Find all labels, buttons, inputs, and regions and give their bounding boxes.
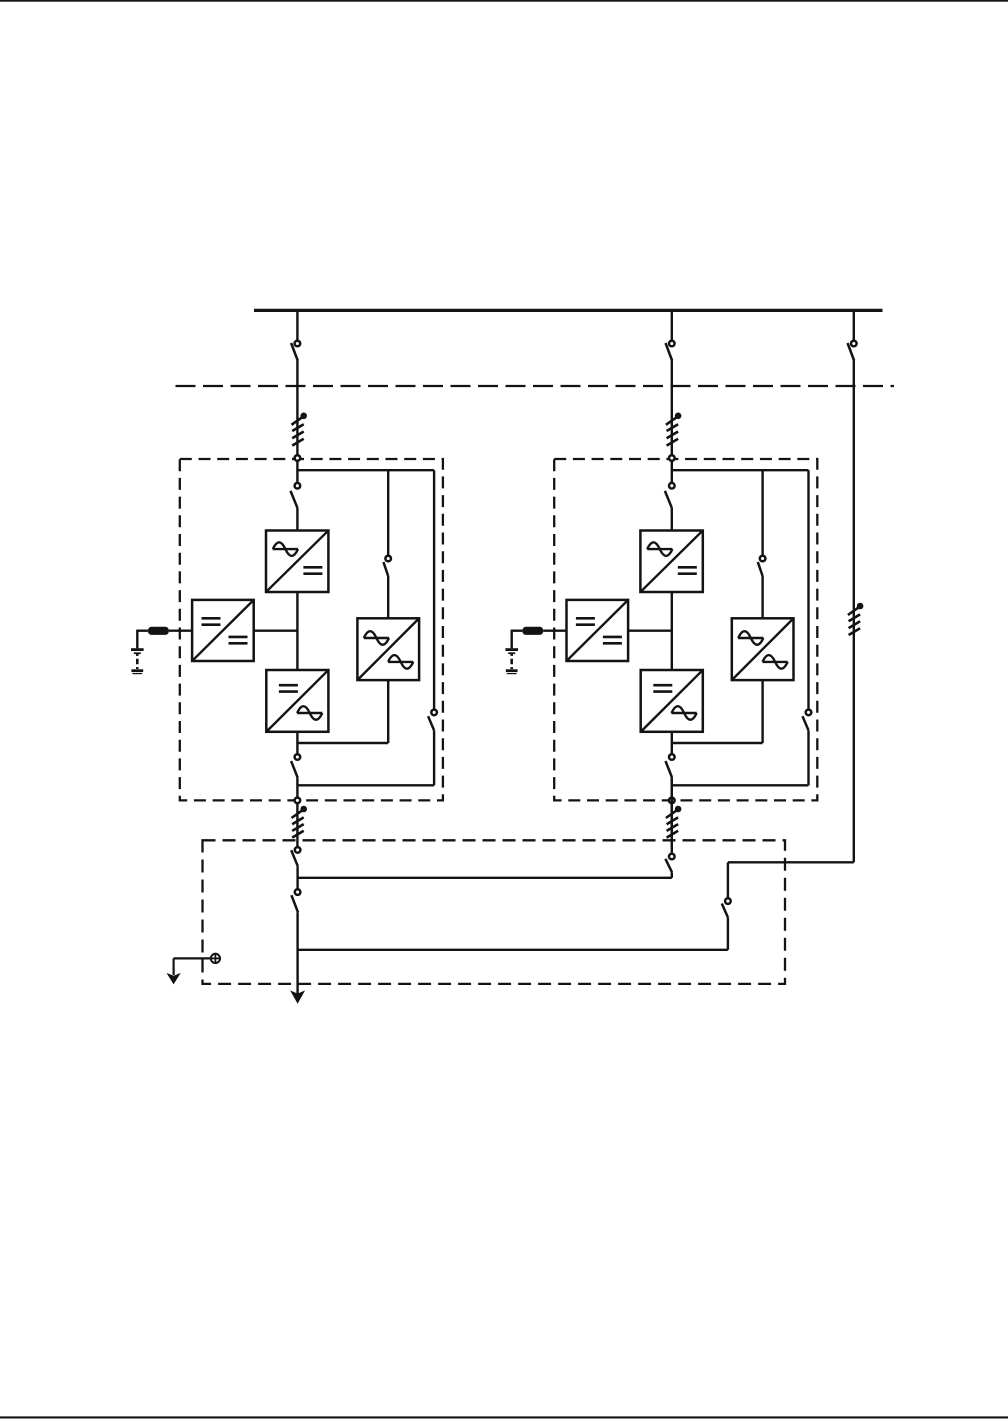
UPS2 output switch pivot: [669, 754, 675, 760]
wire below isolator 1: [296, 360, 298, 455]
UPS2 wire fuse to battery: [512, 630, 523, 632]
UPS1 battery omitted-cells dashes: [136, 654, 139, 669]
UPS1 wire DC tap to charger: [254, 630, 298, 632]
wire bus drop 1: [296, 310, 298, 340]
UPS2 battery fuse block: [522, 627, 543, 635]
UPS2 drawout contact marks (input): [666, 413, 681, 446]
UPS1 static bypass switch blade: [383, 562, 388, 576]
UPS2 wire into static switch: [761, 576, 763, 618]
switchboard load breaker blade: [291, 895, 298, 912]
UPS2 static switch converter box: [732, 618, 794, 680]
UPS2 battery long plate 1: [505, 648, 518, 651]
UPS1 battery short plate 1: [134, 652, 141, 654]
UPS1 output switch pivot: [295, 754, 301, 760]
wire parallel bus tie: [298, 877, 672, 879]
UPS1 static switch AC symbol upper: [364, 631, 389, 645]
UPS1 wire battery down-lead: [136, 630, 138, 649]
UPS1 rectifier AC symbol: [273, 542, 298, 556]
isolator switch pivot Q3: [851, 341, 857, 347]
UPS2 wire maintenance bypass return: [672, 784, 809, 786]
UPS1 static switch AC symbol lower: [388, 655, 413, 669]
UPS2 wire battery down-lead: [511, 630, 513, 649]
UPS2 wire into rectifier: [671, 508, 673, 531]
UPS2 rectifier AC symbol: [647, 542, 672, 556]
UPS1 wire top branch: [297, 469, 434, 471]
UPS1 node output terminal: [295, 798, 301, 804]
UPS1 wire static bypass branch lower: [387, 680, 389, 743]
UPS1 rectifier converter box: [266, 531, 328, 593]
UPS1 wire into rectifier: [296, 508, 298, 531]
UPS1 charger DC symbol lower: [229, 637, 248, 643]
UPS2 inverter DC symbol: [653, 685, 672, 691]
UPS2 wire charger to battery fuse: [543, 630, 566, 632]
page top border: [0, 0, 1008, 2]
UPS1 battery long plate 1: [131, 648, 144, 651]
UPS1 drawout contact marks (input): [292, 413, 308, 446]
UPS1 battery fuse block: [148, 627, 169, 635]
page bottom border: [0, 1416, 1008, 1418]
UPS2 rectifier DC symbol: [678, 567, 697, 573]
UPS1 inverter DC symbol: [279, 685, 298, 691]
UPS1 charger DC symbol upper: [202, 618, 221, 624]
UPS2 output switch blade: [666, 761, 673, 778]
UPS2 charger DC symbol lower: [603, 637, 622, 643]
switchboard UPS2 breaker blade: [665, 859, 672, 873]
UPS2 static bypass switch pivot: [760, 556, 766, 562]
UPS1 maintenance bypass switch blade: [428, 716, 434, 730]
UPS1 inverter AC symbol: [297, 706, 322, 720]
switchboard reserve breaker blade: [722, 904, 728, 918]
drawout contact marks reserve feeder: [848, 603, 863, 635]
isolator switch blade Q2: [666, 343, 673, 361]
wire reserve breaker to tie bus: [727, 917, 729, 949]
UPS1 wire charger to battery fuse: [169, 630, 192, 632]
switchboard UPS1 breaker blade: [291, 850, 298, 866]
UPS2 inverter converter box: [641, 670, 703, 732]
UPS2 wire unit output: [671, 778, 673, 847]
wire reserve feeder: [853, 388, 855, 862]
UPS2 battery charger converter box: [567, 600, 629, 661]
PE earth arrow: [166, 973, 180, 985]
isolator switch pivot Q2: [669, 341, 675, 347]
UPS2 wire maintenance bypass lower: [807, 730, 809, 785]
UPS1 output switch blade: [291, 761, 298, 778]
UPS2 inverter AC symbol: [672, 706, 697, 720]
UPS2 rectifier input switch pivot: [669, 483, 675, 489]
isolator switch blade Q3: [848, 343, 855, 361]
UPS1 wire maintenance bypass lower: [433, 730, 435, 785]
UPS2 charger DC symbol upper: [576, 618, 595, 624]
wire load feeder: [296, 912, 298, 997]
UPS1 wire main input: [296, 455, 298, 483]
UPS2 maintenance bypass switch blade: [803, 716, 809, 730]
wire UPS2 output drop: [671, 778, 673, 854]
UPS2 wire main input: [671, 455, 673, 483]
UPS1 cabinet dashed enclosure: [180, 459, 443, 800]
boundary dashed line (mains side): [176, 385, 895, 387]
UPS2 node input terminal: [669, 455, 675, 461]
wire below isolator 2: [671, 360, 673, 455]
UPS1 wire fuse to battery: [137, 630, 148, 632]
UPS1 wire maintenance bypass return: [297, 784, 434, 786]
UPS1 wire inverter output: [296, 732, 298, 754]
UPS1 rectifier input switch blade: [291, 491, 298, 508]
UPS2 wire maintenance bypass upper: [807, 470, 809, 709]
wire bus drop 3: [853, 310, 855, 340]
wire UPS2 breaker to parallel bus: [671, 872, 673, 878]
UPS1 drawout contact marks (output): [292, 806, 308, 838]
switchboard UPS1 breaker pivot: [295, 847, 301, 853]
wire UPS1 to parallel bus: [296, 866, 298, 889]
switchboard UPS2 breaker pivot: [669, 854, 675, 860]
UPS2 static switch AC symbol lower: [763, 655, 788, 669]
UPS1 wire into static switch: [387, 576, 389, 618]
UPS1 rectifier input switch pivot: [295, 483, 301, 489]
UPS2 drawout contact marks (output): [666, 806, 681, 838]
UPS2 rectifier converter box: [640, 531, 702, 593]
UPS2 battery short plate 1: [508, 652, 515, 654]
input mains busbar: [254, 309, 883, 312]
wire below isolator 3: [853, 360, 855, 388]
UPS1 wire bypass join: [297, 742, 388, 744]
UPS1 static bypass switch pivot: [385, 556, 391, 562]
UPS1 battery charger converter box: [192, 600, 254, 661]
wire reserve into switchboard: [727, 862, 729, 898]
UPS1 wire static bypass branch upper: [387, 470, 389, 555]
UPS2 wire DC tap to charger: [628, 630, 672, 632]
UPS1 wire unit output: [296, 778, 298, 847]
UPS2 battery omitted-cells dashes: [510, 654, 513, 669]
UPS1 rectifier DC symbol: [303, 567, 322, 573]
UPS2 rectifier input switch blade: [665, 491, 672, 508]
UPS2 maintenance bypass switch pivot: [806, 710, 812, 716]
UPS1 battery short plate 2: [132, 673, 142, 675]
UPS2 wire top branch: [672, 469, 809, 471]
UPS2 cabinet dashed enclosure: [554, 459, 817, 800]
switchboard reserve breaker pivot: [725, 898, 731, 904]
UPS1 node input terminal: [295, 455, 301, 461]
PE terminal symbol: [210, 953, 221, 964]
UPS1 inverter converter box: [266, 670, 328, 732]
UPS2 wire static bypass branch upper: [761, 470, 763, 555]
wire PE down-lead: [173, 958, 175, 975]
UPS2 battery short plate 2: [507, 673, 517, 675]
wire PE branch: [174, 957, 210, 959]
wire bus drop 2: [671, 310, 673, 340]
switchboard load breaker pivot: [295, 889, 301, 895]
UPS2 wire static bypass branch lower: [761, 680, 763, 743]
UPS2 static switch AC symbol upper: [738, 631, 763, 645]
output switchboard dashed enclosure: [203, 840, 786, 984]
UPS2 wire inverter output: [671, 732, 673, 754]
UPS2 wire DC link: [671, 592, 673, 670]
wire reserve tie bus: [298, 949, 728, 951]
UPS2 static bypass switch blade: [758, 562, 763, 576]
UPS2 battery long plate 2: [506, 669, 518, 672]
UPS2 node output terminal: [669, 798, 675, 804]
load output arrow: [290, 990, 305, 1003]
isolator switch blade Q1: [291, 343, 298, 361]
isolator switch pivot Q1: [295, 341, 301, 347]
UPS1 wire maintenance bypass upper: [433, 470, 435, 709]
wire reserve corner horizontal: [728, 861, 854, 863]
UPS1 battery long plate 2: [131, 669, 143, 672]
UPS1 maintenance bypass switch pivot: [431, 710, 437, 716]
UPS2 wire bypass join: [672, 742, 763, 744]
UPS1 wire DC link: [296, 592, 298, 670]
UPS1 static switch converter box: [357, 618, 419, 680]
